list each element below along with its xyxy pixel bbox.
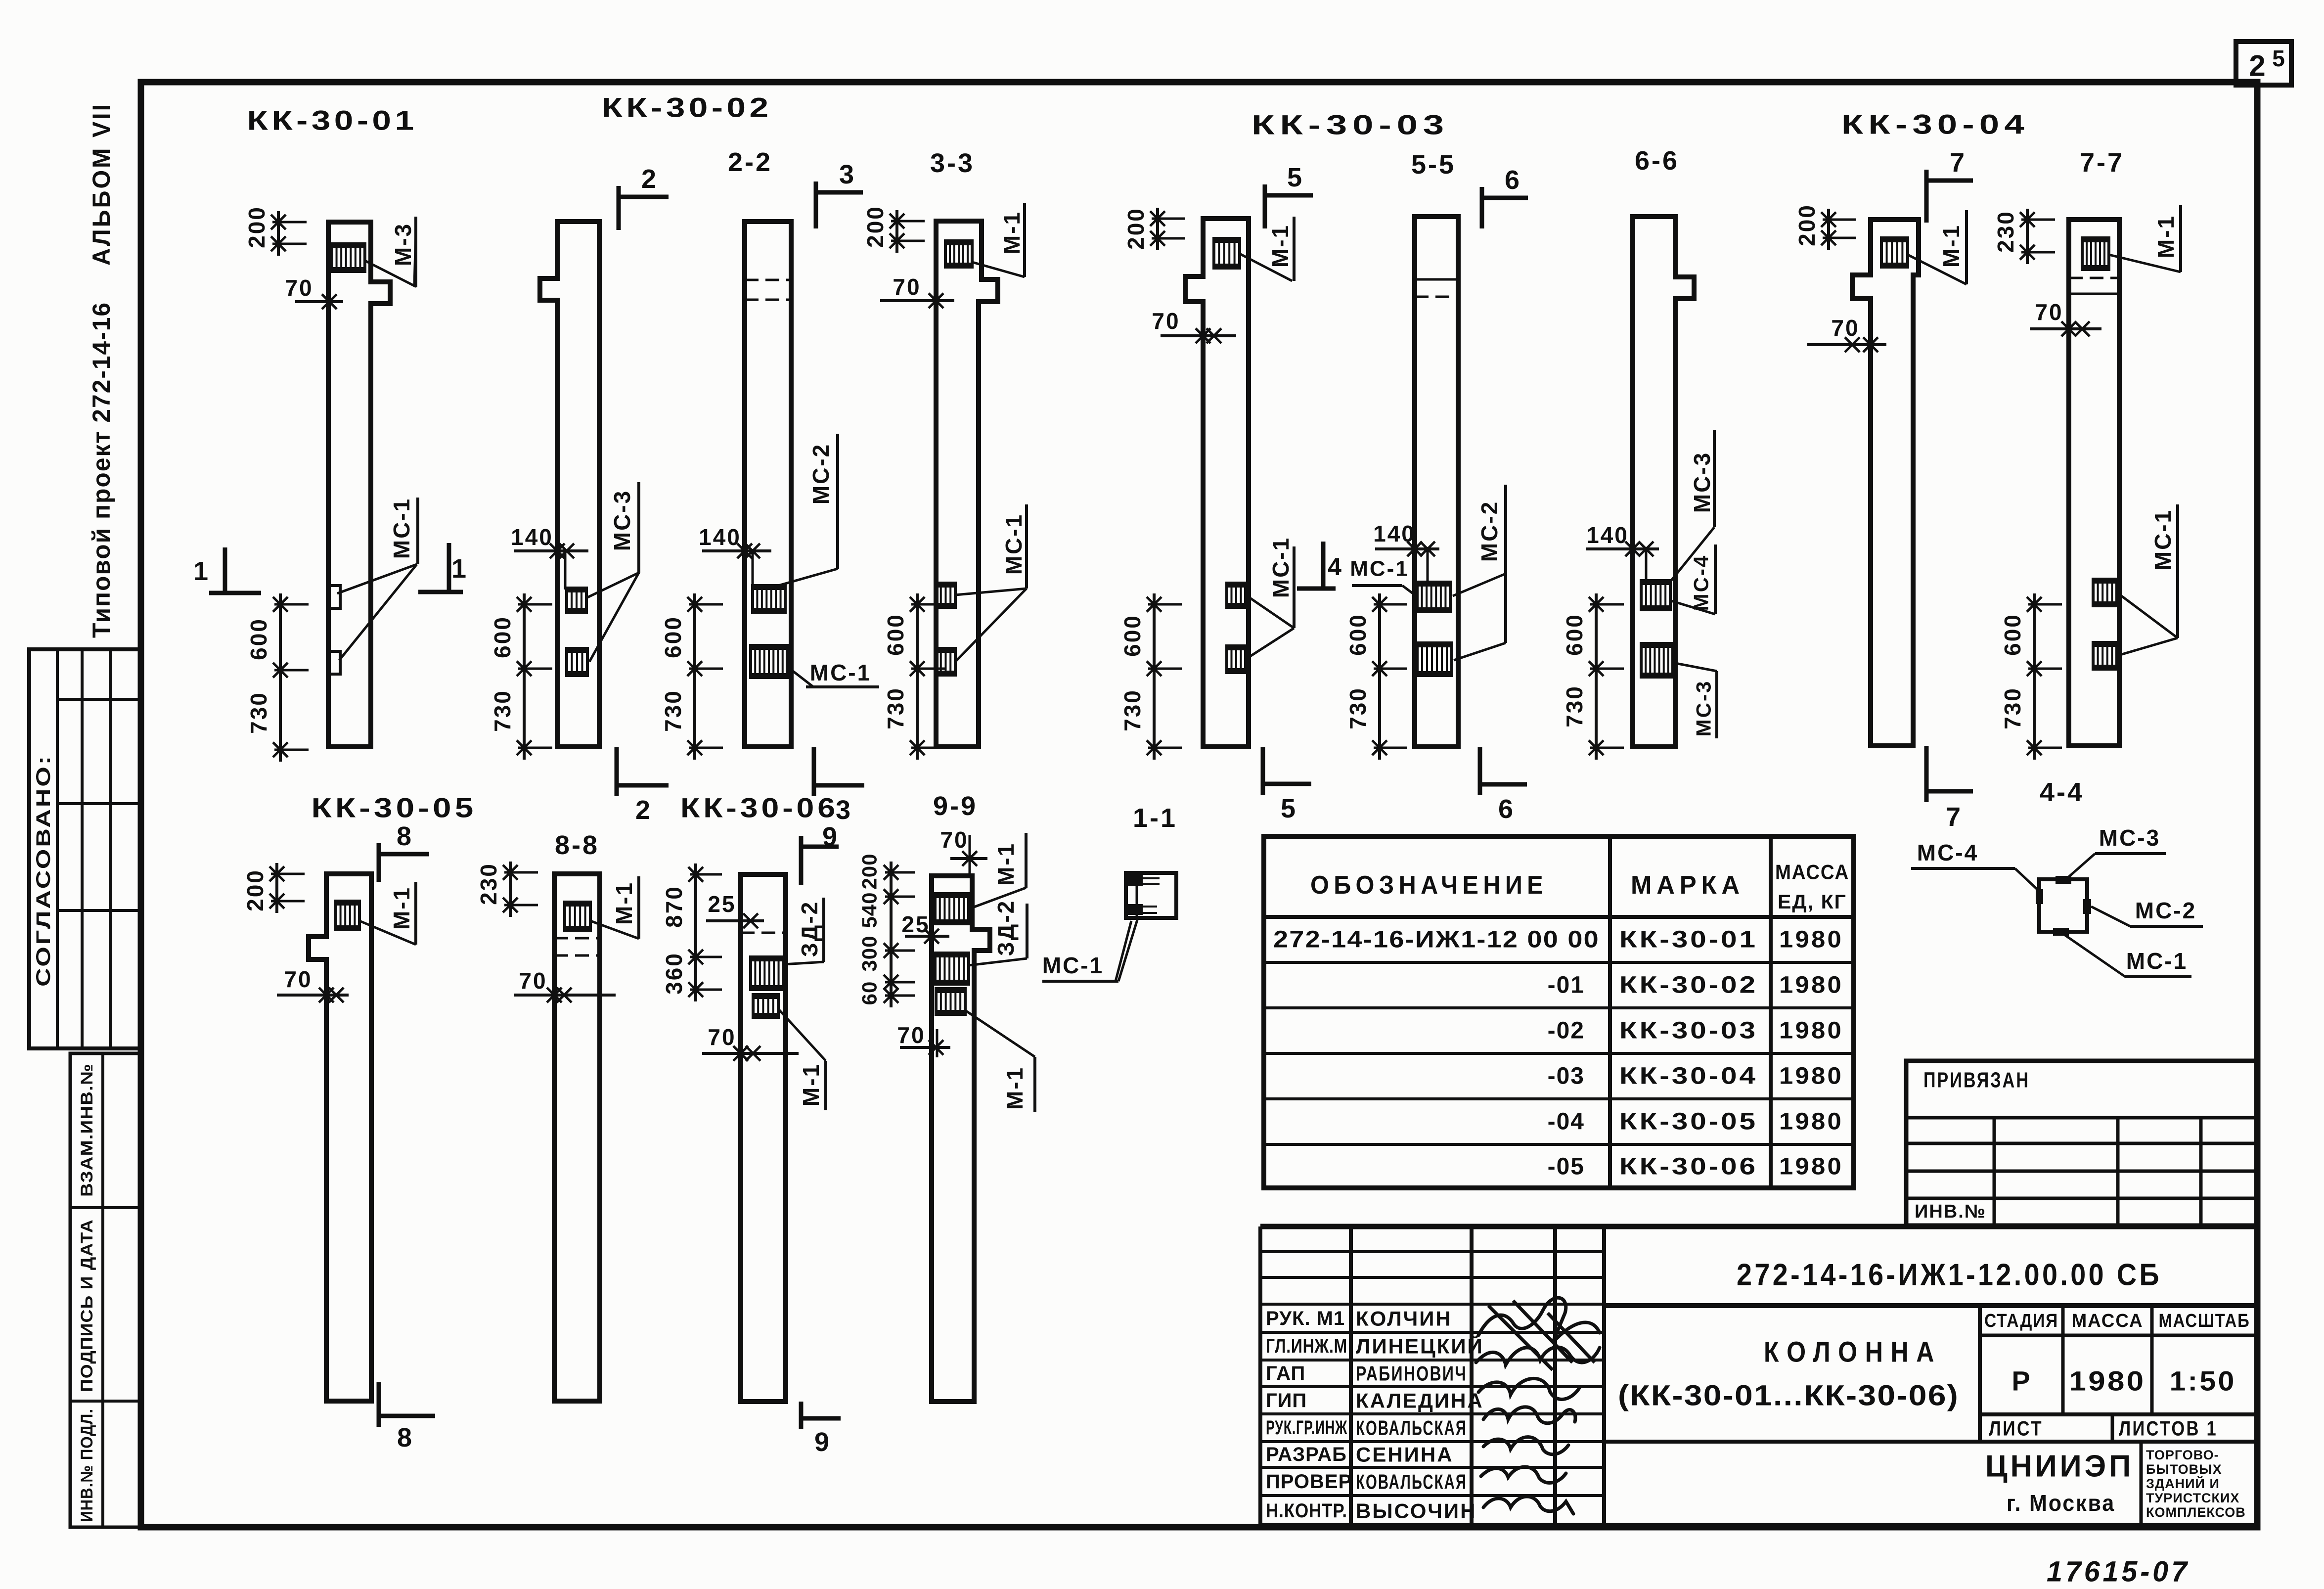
stage mass scale header	[1978, 1306, 1982, 1442]
svg-text:-02: -02	[1548, 1018, 1585, 1044]
svg-text:КК-30-01: КК-30-01	[1619, 927, 1758, 953]
dimensions 600 730 bottom of KK-30-01	[279, 593, 282, 762]
dimensions 600 730 of KK-30-02	[523, 593, 526, 760]
svg-text:МС-3: МС-3	[2099, 825, 2160, 851]
svg-text:МС-4: МС-4	[1690, 554, 1713, 611]
svg-text:230: 230	[476, 863, 501, 905]
svg-text:140: 140	[511, 524, 553, 550]
dimension 70 of KK-30-06	[702, 1052, 799, 1055]
svg-text:730: 730	[1119, 689, 1145, 731]
svg-text:РУК. М1: РУК. М1	[1266, 1308, 1345, 1329]
svg-text:КК-30-06: КК-30-06	[680, 792, 839, 823]
svg-text:7: 7	[1946, 802, 1961, 832]
svg-text:272-14-16-ИЖ1-12.00.00 СБ: 272-14-16-ИЖ1-12.00.00 СБ	[1737, 1258, 2162, 1292]
svg-text:ИНВ.№ ПОДЛ.: ИНВ.№ ПОДЛ.	[78, 1408, 96, 1522]
svg-text:730: 730	[2000, 687, 2025, 729]
section mark 7 top	[1926, 179, 1973, 183]
column section 7-7 outline	[2069, 220, 2119, 746]
section mark 1 right	[418, 590, 463, 594]
dimension 200 of 3-3	[895, 210, 898, 253]
column section 2-2 outline	[745, 222, 791, 747]
svg-text:КК-30-01: КК-30-01	[247, 105, 418, 136]
svg-text:МС-1: МС-1	[2126, 948, 2188, 974]
svg-text:КОВАЛЬСКАЯ: КОВАЛЬСКАЯ	[1356, 1470, 1467, 1494]
dimension 140 of 5-5	[1375, 547, 1439, 550]
svg-text:МС-1: МС-1	[2150, 509, 2176, 570]
svg-text:200: 200	[242, 869, 268, 911]
plate M-1 in KK-30-04	[1881, 238, 1908, 267]
svg-text:70: 70	[285, 275, 313, 301]
svg-text:1-1: 1-1	[1133, 803, 1177, 833]
svg-text:(КК-30-01...КК-30-06): (КК-30-01...КК-30-06)	[1618, 1380, 1959, 1412]
svg-text:70: 70	[940, 827, 968, 853]
svg-text:М-1: М-1	[611, 881, 637, 925]
plates in 5-5	[1417, 582, 1450, 612]
svg-text:1980: 1980	[1779, 1063, 1843, 1090]
svg-text:4: 4	[1328, 553, 1342, 581]
svg-text:ОБОЗНАЧЕНИЕ: ОБОЗНАЧЕНИЕ	[1310, 871, 1548, 900]
svg-text:70: 70	[708, 1024, 736, 1050]
svg-text:МС-1: МС-1	[1042, 953, 1104, 978]
svg-text:200: 200	[1123, 207, 1149, 250]
privyazan table	[1906, 1061, 2257, 1226]
svg-text:2: 2	[635, 795, 650, 825]
svg-text:1: 1	[193, 556, 209, 586]
svg-text:70: 70	[893, 274, 921, 300]
dashed lines in 2-2	[745, 279, 791, 281]
dashed line in KK-30-06	[741, 932, 786, 934]
svg-text:ЛИСТ: ЛИСТ	[1989, 1417, 2043, 1440]
plate marks in 1-1	[1128, 875, 1143, 886]
plate M-1 in KK-30-03	[1214, 238, 1240, 268]
svg-text:730: 730	[490, 689, 515, 732]
svg-text:М-3: М-3	[390, 223, 416, 266]
dimension 140 of 6-6	[1586, 547, 1659, 550]
section mark 2 top	[619, 195, 669, 199]
svg-text:КАЛЕДИНА: КАЛЕДИНА	[1356, 1389, 1484, 1412]
plates MC-1 in KK-30-03	[1227, 583, 1246, 607]
svg-text:730: 730	[1345, 687, 1371, 729]
dimension 70 top of 9-9	[950, 857, 987, 860]
dimension 140 of 2-2	[702, 549, 771, 552]
plates in 6-6	[1641, 581, 1670, 610]
dimension 230 of 7-7	[2026, 209, 2029, 264]
svg-text:730: 730	[660, 689, 686, 732]
svg-text:ВЫСОЧИН: ВЫСОЧИН	[1356, 1499, 1476, 1523]
dimension chain 200 540 300 60 of 9-9	[890, 862, 893, 1007]
plate M-1 in 7-7	[2082, 238, 2109, 270]
svg-text:КК-30-03: КК-30-03	[1251, 109, 1449, 140]
svg-text:М-1: М-1	[1938, 224, 1964, 268]
svg-text:9-9: 9-9	[933, 791, 978, 821]
signature squiggles	[1478, 1298, 1600, 1343]
svg-text:КК-30-03: КК-30-03	[1619, 1018, 1758, 1044]
svg-text:70: 70	[2035, 299, 2063, 325]
svg-text:КОВАЛЬСКАЯ: КОВАЛЬСКАЯ	[1356, 1416, 1467, 1440]
svg-text:3: 3	[839, 160, 854, 189]
svg-text:5-5: 5-5	[1411, 150, 1456, 180]
section mark 4 left	[1297, 587, 1336, 591]
embed plate M-3 in KK-30-01	[332, 244, 365, 272]
svg-text:7: 7	[1950, 148, 1965, 178]
dimensions 600 730 of KK-30-03	[1153, 593, 1156, 760]
svg-text:300: 300	[858, 935, 881, 971]
svg-text:ПОДПИСЬ И ДАТА: ПОДПИСЬ И ДАТА	[78, 1219, 96, 1392]
svg-text:ГАП: ГАП	[1266, 1362, 1305, 1384]
svg-text:КК-30-04: КК-30-04	[1841, 109, 2029, 140]
dimension 140 of KK-30-02	[514, 549, 588, 552]
column KK-30-05 outline	[309, 874, 371, 1401]
svg-text:8-8: 8-8	[555, 830, 599, 860]
svg-text:МС-3: МС-3	[1692, 680, 1715, 737]
svg-text:1980: 1980	[1779, 927, 1843, 953]
svg-text:730: 730	[883, 687, 908, 729]
svg-text:272-14-16-ИЖ1-12 00 00: 272-14-16-ИЖ1-12 00 00	[1273, 927, 1600, 953]
svg-text:МС-4: МС-4	[1917, 840, 1978, 865]
svg-text:25: 25	[708, 891, 736, 917]
svg-text:6-6: 6-6	[1635, 146, 1679, 176]
svg-text:1980: 1980	[2069, 1365, 2146, 1397]
dimension 70 of KK-30-05	[277, 994, 349, 997]
svg-text:МС-3: МС-3	[1689, 452, 1715, 513]
svg-text:600: 600	[246, 618, 271, 660]
plate M-1 lower in 9-9	[936, 989, 965, 1014]
plates MC-1 in 7-7	[2093, 579, 2117, 606]
svg-text:МС-1: МС-1	[810, 660, 871, 685]
dimension 200 of KK-30-03	[1156, 208, 1159, 250]
dimensions 600 730 of 5-5	[1378, 593, 1381, 760]
dimension 230 of 8-8	[509, 862, 512, 917]
svg-text:ПРИВЯЗАН: ПРИВЯЗАН	[1923, 1068, 2030, 1092]
column section 6-6 outline	[1633, 217, 1694, 747]
svg-text:1: 1	[451, 554, 467, 584]
svg-text:г. Москва: г. Москва	[2007, 1490, 2115, 1516]
svg-text:1:50: 1:50	[2170, 1365, 2236, 1397]
svg-text:3-3: 3-3	[930, 148, 975, 178]
detail 1-1 square	[1126, 873, 1176, 918]
plate ZD-2 in 9-9	[935, 953, 969, 984]
svg-text:МАСШТАБ: МАСШТАБ	[2159, 1311, 2250, 1331]
column KK-30-03 outline	[1185, 219, 1249, 747]
plate M-1 top in 9-9	[935, 894, 969, 924]
svg-text:200: 200	[244, 206, 269, 248]
dimension 70 of KK-30-03	[1161, 334, 1236, 337]
svg-text:-05: -05	[1548, 1154, 1585, 1180]
dimension 70 of KK-30-04	[1807, 343, 1886, 346]
dimension 70 of 7-7	[2030, 327, 2101, 330]
dimension 70 of 8-8	[514, 994, 616, 997]
plate M-1 in KK-30-06	[753, 995, 778, 1017]
tabs MC-1 on KK-30-01	[328, 586, 340, 608]
page number box 25	[2236, 42, 2291, 85]
svg-text:-03: -03	[1548, 1063, 1585, 1090]
svg-text:МС-1: МС-1	[1001, 513, 1027, 575]
svg-text:7-7: 7-7	[2080, 148, 2124, 178]
svg-text:МС-1: МС-1	[389, 498, 414, 559]
section mark 6 top	[1482, 196, 1528, 200]
svg-text:17615-07: 17615-07	[2047, 1556, 2190, 1588]
section mark 7 bottom	[1926, 789, 1973, 794]
svg-text:ГЛ.ИНЖ.М: ГЛ.ИНЖ.М	[1266, 1335, 1347, 1357]
svg-text:СТАДИЯ: СТАДИЯ	[1984, 1311, 2058, 1331]
svg-text:4-4: 4-4	[2040, 777, 2084, 807]
svg-text:600: 600	[1345, 613, 1371, 656]
svg-text:540: 540	[858, 892, 881, 928]
svg-text:Н.КОНТР.: Н.КОНТР.	[1266, 1500, 1347, 1522]
svg-text:ЛИСТОВ 1: ЛИСТОВ 1	[2119, 1417, 2218, 1440]
svg-text:КК-30-05: КК-30-05	[312, 792, 477, 823]
svg-text:600: 600	[883, 613, 908, 656]
column KK-30-06 outline	[741, 874, 786, 1402]
svg-text:5: 5	[2272, 45, 2285, 71]
svg-text:360: 360	[661, 952, 687, 995]
specification table	[1264, 836, 1854, 1188]
column KK-30-04 outline	[1852, 220, 1919, 746]
svg-text:ПРОВЕР: ПРОВЕР	[1266, 1471, 1352, 1493]
svg-text:ТУРИСТСКИХ: ТУРИСТСКИХ	[2146, 1491, 2239, 1505]
dimension 25 of KK-30-06	[706, 919, 764, 922]
svg-text:МАССА: МАССА	[1775, 861, 1849, 884]
svg-text:КК-30-04: КК-30-04	[1619, 1063, 1758, 1090]
svg-text:2-2: 2-2	[728, 147, 772, 177]
section mark 1 left	[209, 591, 261, 595]
section mark 9 bottom	[801, 1416, 841, 1421]
svg-text:-04: -04	[1548, 1109, 1585, 1135]
tabs MC-1 in 3-3	[936, 583, 955, 607]
svg-text:140: 140	[699, 524, 741, 550]
dimension 70 of KK-30-01	[295, 300, 343, 303]
svg-text:МАССА: МАССА	[2072, 1311, 2144, 1331]
plate marks on 4-4	[2056, 876, 2071, 884]
svg-text:2: 2	[2249, 49, 2265, 83]
dimensions 870 360 of KK-30-06	[694, 863, 697, 1001]
svg-text:200: 200	[858, 853, 881, 889]
svg-text:М-1: М-1	[2153, 215, 2179, 258]
section mark 9 top	[801, 845, 839, 849]
svg-text:КОМПЛЕКСОВ: КОМПЛЕКСОВ	[2146, 1505, 2246, 1520]
svg-text:М-1: М-1	[798, 1063, 824, 1106]
section mark 5 bottom	[1263, 782, 1311, 786]
svg-text:730: 730	[1562, 685, 1587, 727]
organization	[2140, 1442, 2143, 1526]
plate M-1 in 8-8	[565, 902, 590, 930]
section mark 8 top	[379, 852, 429, 857]
svg-text:ВЗАМ.ИНВ.№: ВЗАМ.ИНВ.№	[78, 1063, 96, 1197]
dimensions 600 730 of 7-7	[2033, 593, 2036, 760]
svg-text:КК-30-06: КК-30-06	[1619, 1154, 1758, 1180]
svg-text:9: 9	[814, 1427, 829, 1457]
svg-text:1980: 1980	[1779, 1018, 1843, 1044]
plates MC-3 in KK-30-02	[567, 588, 586, 612]
svg-text:600: 600	[1562, 613, 1587, 656]
svg-text:Р: Р	[2011, 1365, 2031, 1397]
svg-text:М-1: М-1	[389, 886, 414, 930]
approval table СОГЛАСОВАНО	[29, 649, 140, 1048]
svg-text:КК-30-02: КК-30-02	[1619, 972, 1758, 999]
detail 4-4 square	[2039, 879, 2087, 932]
svg-text:600: 600	[490, 616, 515, 658]
svg-text:М-1: М-1	[1267, 224, 1293, 268]
svg-text:5: 5	[1287, 163, 1302, 192]
svg-text:870: 870	[661, 885, 687, 928]
column section 5-5 outline	[1415, 217, 1458, 747]
column section 9-9 outline	[932, 876, 990, 1402]
svg-text:ЛИНЕЦКИЙ: ЛИНЕЦКИЙ	[1356, 1334, 1484, 1358]
section mark 5 top	[1265, 193, 1313, 198]
svg-text:ГИП: ГИП	[1266, 1390, 1307, 1411]
svg-text:2: 2	[641, 164, 656, 194]
svg-text:5: 5	[1281, 794, 1296, 823]
dimension 200 top of KK-30-01	[277, 211, 280, 256]
dimension 25 of 9-9	[905, 935, 949, 938]
svg-text:ЗД-2: ЗД-2	[797, 901, 822, 957]
column KK-30-01 outline	[328, 222, 390, 747]
svg-text:Типовой проект 272-14-16: Типовой проект 272-14-16	[88, 302, 115, 638]
plate M-1 in KK-30-05	[336, 901, 359, 930]
svg-text:СОГЛАСОВАНО:: СОГЛАСОВАНО:	[33, 754, 54, 987]
column section 8-8 outline	[554, 874, 600, 1401]
svg-text:60: 60	[858, 981, 881, 1005]
svg-text:230: 230	[1993, 210, 2018, 253]
svg-text:8: 8	[397, 1423, 412, 1453]
svg-text:МС-1: МС-1	[1268, 537, 1294, 598]
dimension 200 of KK-30-04	[1827, 209, 1830, 250]
svg-text:МС-3: МС-3	[609, 490, 635, 551]
plates in 2-2	[753, 586, 785, 612]
svg-text:КОЛЧИН: КОЛЧИН	[1356, 1307, 1452, 1330]
svg-text:1980: 1980	[1779, 1154, 1843, 1180]
title block outline	[1260, 1224, 2257, 1229]
dimensions 600 730 of 3-3	[916, 593, 919, 760]
svg-text:ТОРГОВО-: ТОРГОВО-	[2146, 1448, 2219, 1462]
svg-text:М-1: М-1	[1002, 1066, 1028, 1110]
inventory strip with rotated labels	[70, 1053, 140, 1527]
svg-text:МС-2: МС-2	[808, 443, 834, 504]
svg-text:ЗДАНИЙ И: ЗДАНИЙ И	[2146, 1476, 2220, 1491]
svg-text:600: 600	[2000, 613, 2025, 656]
section mark 8 bottom	[379, 1414, 435, 1418]
svg-text:РУК.ГР.ИНЖ: РУК.ГР.ИНЖ	[1266, 1417, 1347, 1439]
svg-text:ЕД, КГ: ЕД, КГ	[1778, 891, 1847, 913]
svg-text:70: 70	[284, 966, 312, 992]
section mark 3 bottom	[814, 783, 864, 788]
dimension 200 of KK-30-05	[275, 863, 278, 913]
column section 3-3 outline	[936, 221, 998, 747]
plate ZD-2 in KK-30-06	[751, 957, 783, 990]
svg-text:6: 6	[1498, 794, 1513, 824]
svg-text:РАЗРАБ: РАЗРАБ	[1266, 1444, 1347, 1465]
svg-text:МС-2: МС-2	[1476, 500, 1502, 562]
svg-text:6: 6	[1505, 165, 1520, 195]
plate M-1 in 3-3	[945, 241, 972, 267]
svg-text:КОЛОННА: КОЛОННА	[1764, 1336, 1942, 1368]
svg-text:8: 8	[397, 821, 411, 851]
svg-text:600: 600	[660, 616, 686, 658]
svg-text:200: 200	[1794, 204, 1820, 246]
svg-text:70: 70	[897, 1022, 925, 1048]
section mark 2 bottom	[617, 783, 669, 788]
svg-text:ИНВ.№: ИНВ.№	[1915, 1201, 1986, 1222]
dimension 70 bottom of 9-9	[936, 1029, 939, 1057]
svg-text:140: 140	[1586, 522, 1629, 548]
svg-text:9: 9	[822, 822, 837, 852]
lines in 7-7 top	[2069, 277, 2119, 279]
svg-text:БЫТОВЫХ: БЫТОВЫХ	[2146, 1462, 2222, 1477]
svg-text:200: 200	[862, 205, 888, 248]
svg-text:АЛЬБОМ VII: АЛЬБОМ VII	[88, 102, 115, 266]
svg-text:ЗД-2: ЗД-2	[993, 900, 1019, 956]
dimensions 600 730 of 2-2	[693, 593, 696, 760]
svg-text:25: 25	[901, 911, 930, 937]
section mark 3 top	[816, 190, 863, 195]
svg-text:М-1: М-1	[999, 211, 1025, 254]
svg-text:МС-2: МС-2	[2135, 898, 2196, 923]
svg-text:РАБИНОВИЧ: РАБИНОВИЧ	[1356, 1362, 1467, 1385]
svg-text:1980: 1980	[1779, 972, 1843, 999]
svg-text:СЕНИНА: СЕНИНА	[1356, 1443, 1454, 1466]
svg-text:600: 600	[1119, 614, 1145, 657]
svg-text:70: 70	[1152, 308, 1180, 334]
svg-text:МАРКА: МАРКА	[1631, 871, 1744, 900]
svg-text:КК-30-05: КК-30-05	[1619, 1109, 1758, 1135]
dimension 70 of 3-3	[880, 299, 954, 302]
svg-text:ЦНИИЭП: ЦНИИЭП	[1985, 1450, 2134, 1484]
svg-text:М-1: М-1	[993, 842, 1019, 886]
svg-text:МС-1: МС-1	[1350, 557, 1409, 581]
svg-text:КК-30-02: КК-30-02	[602, 92, 772, 123]
svg-text:70: 70	[1831, 315, 1859, 341]
svg-text:730: 730	[246, 691, 271, 734]
svg-text:70: 70	[519, 968, 547, 994]
svg-text:140: 140	[1373, 521, 1416, 546]
section mark 6 bottom	[1480, 782, 1527, 787]
signature table of title block	[1258, 1226, 1262, 1526]
dashed lines in 8-8	[554, 937, 600, 940]
dimensions 600 730 of 6-6	[1595, 593, 1598, 760]
svg-text:-01: -01	[1548, 972, 1585, 999]
lines in 5-5 top	[1415, 278, 1458, 281]
column KK-30-02 outline	[540, 222, 599, 747]
svg-text:1980: 1980	[1779, 1109, 1843, 1135]
